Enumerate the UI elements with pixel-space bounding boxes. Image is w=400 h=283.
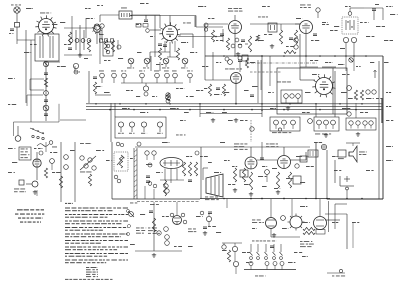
ground V3B <box>233 188 237 192</box>
capacitor C37 <box>19 180 24 185</box>
line cord plug <box>128 211 134 217</box>
wire bracket 195 <box>180 16 195 48</box>
tube cap connection <box>348 8 352 15</box>
capacitor C55 <box>203 227 207 229</box>
wave trap box 66 <box>119 11 132 19</box>
wire V3A down <box>235 84 237 104</box>
bypass capacitor C16 <box>121 71 126 84</box>
lug pot 2 <box>117 179 121 183</box>
resistor R8 <box>166 93 171 101</box>
SB3 pin 4 <box>369 121 373 129</box>
wire dash-dot y63 <box>245 62 318 64</box>
SB1 pin 1 <box>274 120 279 129</box>
wire top audio <box>135 146 310 148</box>
diode D1 <box>343 37 348 42</box>
bypass capacitor C15 <box>111 71 116 84</box>
volume control R23 dashed box <box>114 152 128 171</box>
wire y62 seg <box>44 61 60 63</box>
tube V3B 1st audio <box>245 157 257 169</box>
resistor R4 <box>158 48 161 60</box>
wire v 327 <box>326 150 328 199</box>
junction dots <box>234 55 262 56</box>
discriminator T4 dashed box <box>342 17 358 34</box>
phono pickup arm <box>37 141 57 148</box>
antenna ANT label <box>11 4 21 7</box>
wire x160 top <box>159 15 161 28</box>
wire heater bus <box>205 55 383 57</box>
resistor R5 <box>176 48 179 60</box>
wire x203 upper <box>199 103 201 117</box>
wire y122 riser <box>58 104 60 122</box>
interlock contact K1 <box>250 244 253 259</box>
capacitor C47 <box>240 170 248 177</box>
wire x271 top2 <box>270 199 272 212</box>
label switch <box>80 171 92 174</box>
node L label <box>9 32 13 35</box>
coil box T1 <box>35 34 59 61</box>
capacitor C38 <box>64 155 69 160</box>
shield box inner wall <box>332 68 334 114</box>
capacitor C36 <box>50 159 55 170</box>
wire x75 <box>74 142 76 202</box>
capacitor C45 <box>188 180 192 182</box>
socket box SB1 <box>270 117 300 131</box>
IF transformer T2 <box>103 42 113 56</box>
tube V4 output <box>278 156 291 169</box>
wire to trans <box>203 168 208 180</box>
wire x227 bottom <box>226 199 228 209</box>
SB1 pin 3 <box>291 120 296 129</box>
coupling C46 <box>260 158 264 160</box>
bypass capacitor C14 <box>99 71 104 84</box>
wire x89 vertical <box>88 71 90 103</box>
wire y120 left <box>60 119 86 121</box>
small parts <box>294 38 298 49</box>
capacitor C61 <box>231 44 235 48</box>
capacitor C58 <box>250 127 254 131</box>
wire V3A left <box>205 79 230 81</box>
notes margin circles <box>127 210 131 236</box>
resistor R11 <box>226 38 229 50</box>
capacitor C4 <box>44 73 48 75</box>
lug A2 <box>290 94 294 98</box>
wire x145 stem <box>144 186 146 199</box>
wire y272 <box>244 269 296 271</box>
labels under boxes <box>315 133 331 136</box>
wave trap coil <box>122 13 130 17</box>
junction dots on buses <box>95 55 367 199</box>
wire x111 <box>110 103 112 142</box>
wire V6 down <box>305 34 307 56</box>
wire tube cap V6 <box>350 7 364 9</box>
wire y40 left <box>16 40 18 44</box>
wire V3B top <box>250 147 252 157</box>
wire gang bracket 1 <box>30 79 44 90</box>
lug A3 <box>296 94 301 103</box>
junction a <box>250 198 284 199</box>
resistor R25 <box>182 162 185 176</box>
wire x177 up <box>176 202 178 215</box>
capacitor C24 <box>220 34 224 36</box>
pilot lamp P4 <box>181 58 188 68</box>
wire x258 pair <box>258 60 261 103</box>
wire osc bottom <box>64 54 92 56</box>
capacitor C27 <box>289 38 293 40</box>
wire x347b <box>346 214 348 249</box>
wire v speaker <box>315 142 317 199</box>
label V5A detector <box>228 8 243 12</box>
wire top right <box>364 8 383 20</box>
parts row y40 <box>69 39 114 43</box>
socket box SB2 <box>314 117 339 131</box>
capacitor C25 <box>241 40 245 42</box>
socket lug 3 <box>141 122 147 134</box>
wire motor top <box>325 214 347 220</box>
pot arrow <box>117 155 124 168</box>
resistor R21 <box>59 176 62 188</box>
interlock contact K2 <box>257 244 260 259</box>
tube V3B phono amp <box>33 159 41 167</box>
wire x354 low <box>353 56 355 71</box>
label 455kc <box>258 16 268 19</box>
trimmer C33 <box>366 90 376 94</box>
wire v 335b <box>334 160 336 183</box>
wire x61 <box>60 142 62 202</box>
wire x13 drop <box>13 122 15 136</box>
pilot light P5 <box>321 144 326 149</box>
capacitor C63 <box>148 163 152 167</box>
resistor R27 <box>194 162 197 176</box>
resistor R6 <box>104 40 107 52</box>
wire AVC bus horizontal <box>86 109 383 111</box>
coil detail T2 <box>106 44 110 54</box>
grid stopper <box>195 151 199 155</box>
band switch S1 <box>15 126 44 141</box>
diode D2 <box>351 37 356 42</box>
label output trans <box>205 197 219 201</box>
capacitor C50 <box>295 164 299 168</box>
capacitor C49 <box>293 176 301 184</box>
lug A1 <box>284 94 289 103</box>
resistor R38 <box>256 35 259 41</box>
wire speaker top <box>346 143 360 146</box>
wire V5 top <box>234 15 236 20</box>
wire V3B-V4 <box>257 159 277 161</box>
label V4 power amp <box>266 144 278 148</box>
resistor R34 <box>152 218 155 232</box>
wire x356 down <box>355 103 357 118</box>
capacitor C41 <box>145 151 149 160</box>
lug C <box>347 112 351 116</box>
wire V2B box <box>334 71 336 117</box>
trimmer C10 <box>73 63 78 74</box>
wire osc mix <box>261 56 263 71</box>
label bottom sw <box>255 275 266 278</box>
label speaker <box>359 152 367 156</box>
lug B <box>308 119 313 124</box>
wire V2 cathode down <box>163 41 178 57</box>
wire V2 plate right <box>178 36 223 38</box>
antenna loop A1 <box>14 7 20 22</box>
wire B+ bus horizontal <box>86 103 383 105</box>
wire V2 grid left <box>150 29 161 31</box>
capacitor C26 <box>268 23 277 32</box>
wire y24 V2-V5 <box>196 26 223 28</box>
bypass capacitor C18 <box>154 71 159 84</box>
rect socket circles <box>170 213 187 224</box>
ground rect2 <box>272 233 276 237</box>
ground V3A <box>211 118 215 122</box>
capacitor C8 <box>44 114 48 116</box>
notes paragraph block <box>65 208 128 264</box>
wire y95 mid <box>95 94 111 96</box>
ground phono <box>33 190 37 194</box>
SB2 pin 1 <box>317 120 322 129</box>
resistor R16 <box>354 90 357 100</box>
wire dashed y72 <box>250 71 281 73</box>
SB3 ground <box>356 132 360 136</box>
capacitor C59 <box>204 23 208 31</box>
resistor R29 <box>242 168 245 182</box>
wire trap down <box>144 15 148 22</box>
wire V5 left <box>205 23 228 25</box>
label line <box>252 240 277 243</box>
capacitor C9 <box>68 48 72 50</box>
pilot lamp P1 <box>127 58 134 68</box>
switch marks <box>332 269 345 276</box>
wire audio wall x201 <box>200 147 202 199</box>
label V6 FM det <box>300 5 311 9</box>
wire section wall x112 <box>111 142 113 199</box>
resistor R37 <box>227 250 230 262</box>
resistor R15 <box>294 30 297 44</box>
wire bottom right horizontal <box>327 198 383 200</box>
label PHONO <box>14 189 26 193</box>
capacitor C67 <box>316 230 325 235</box>
wire x205 vertical <box>204 24 206 80</box>
resistor R24 <box>163 180 166 196</box>
switch wafer lug 4 <box>280 262 284 270</box>
switch S5 <box>233 261 238 274</box>
wire right inner vertical <box>378 61 380 199</box>
ground det <box>270 44 274 48</box>
interlock contact K4 <box>273 244 276 259</box>
wire x115 <box>114 103 116 117</box>
SB1 stem <box>272 128 291 133</box>
trimmer capacitor C3 <box>43 61 48 66</box>
wire switch link <box>222 242 242 244</box>
switch S1 contacts <box>32 135 44 139</box>
ground V3A2 <box>234 118 238 122</box>
wire D2 down <box>353 43 355 56</box>
wire x37 down2 <box>36 190 38 196</box>
wire x86 v <box>85 18 87 38</box>
tone capacitor C51 <box>338 150 346 159</box>
wire x306 low <box>305 56 307 67</box>
wire x340 down <box>346 190 348 199</box>
wire left vertical 2 <box>30 40 32 122</box>
capacitor C32 <box>347 86 352 91</box>
wire rect out <box>271 229 300 238</box>
resistor R1 <box>44 78 47 87</box>
interlock contact K3 <box>265 244 268 259</box>
resistor R32 <box>288 172 291 188</box>
SB3 pin 2 <box>356 121 360 129</box>
resistor R18 <box>208 84 211 96</box>
capacitor C57 <box>270 246 274 248</box>
wire y180 bits <box>160 179 184 181</box>
bypass capacitor C21 <box>187 71 193 84</box>
socket box SB3 <box>346 118 376 130</box>
wire section floor <box>112 198 200 200</box>
volume pot R12 <box>245 36 252 52</box>
components y58-68 <box>225 58 249 69</box>
capacitor C56 <box>281 216 286 221</box>
wire osc section <box>64 27 97 29</box>
label sel rect <box>252 220 264 224</box>
switch wafer lug 2 <box>265 262 269 270</box>
wire gang to band switch <box>14 121 60 123</box>
wire antenna to coil <box>17 39 35 41</box>
switch S3 <box>222 243 226 249</box>
label rect <box>188 229 196 233</box>
coil T4 <box>346 20 354 30</box>
capacitor C44 <box>165 189 169 193</box>
notes bottom line <box>65 278 113 281</box>
capacitor C34 <box>216 88 220 90</box>
title SCHEMATIC OF THE <box>17 209 44 210</box>
wire x100 v2 <box>99 30 101 64</box>
electrolytic C30 <box>349 58 353 62</box>
wire trap right <box>132 14 160 16</box>
resistor R7 <box>111 40 114 52</box>
capacitor C62 <box>238 44 242 48</box>
wire psu <box>208 213 210 216</box>
label R thick <box>381 98 383 123</box>
socket lug 2 <box>129 122 135 134</box>
wire x346 low <box>345 56 347 71</box>
IF parts row <box>136 24 149 33</box>
resistor R22 <box>88 174 91 186</box>
wire x75 upper <box>74 66 76 71</box>
title line 3 <box>18 218 43 219</box>
wire y273r <box>327 272 345 274</box>
switch S4 <box>232 243 237 261</box>
wire x72 v <box>71 16 73 38</box>
SB2 pin 2 <box>324 120 329 129</box>
wire V4 top <box>283 147 285 156</box>
tube V7 rectifier <box>173 216 182 225</box>
SB1 pin 2 <box>282 120 287 129</box>
capacitor C29 <box>316 8 320 18</box>
ground V4 <box>249 190 280 196</box>
capacitor C12 <box>100 24 104 40</box>
wire V3B top <box>37 151 43 158</box>
ground TB1 <box>286 106 290 110</box>
capacitor C40 <box>137 142 141 146</box>
wire x223 v <box>222 29 224 42</box>
wire x262 <box>261 71 263 117</box>
parts row y58 <box>225 55 248 61</box>
socket lug 4 <box>157 122 163 134</box>
tube V3 dual triode <box>160 158 183 169</box>
shield box FM IF <box>277 68 347 114</box>
label top <box>74 71 80 74</box>
wire x154 stem2 <box>153 189 155 199</box>
wire D1 down <box>345 43 347 56</box>
resistor R14 <box>284 50 296 53</box>
wire parts-row bus <box>121 82 183 84</box>
ground osc <box>78 53 82 57</box>
capacitor C66 <box>116 142 123 146</box>
wire audio ground bus <box>200 198 330 200</box>
wire avc tap <box>145 83 147 86</box>
interlock contact K5 <box>280 244 283 259</box>
wire gang bracket 2 <box>27 95 43 106</box>
tube V6 ratio detector <box>300 21 313 34</box>
pilot lamp P3 <box>162 58 169 68</box>
switch wafer lug 3 <box>273 262 277 270</box>
capacitor C42 <box>152 151 156 160</box>
junction <box>235 103 262 111</box>
padder capacitor C5 <box>44 91 49 96</box>
wire V5 down <box>234 34 236 56</box>
wire y24 segment <box>250 23 300 25</box>
resistor R20 <box>44 168 47 178</box>
ground rect <box>152 253 156 257</box>
wire x213 vertical <box>212 52 214 80</box>
capacitor C60 <box>235 38 239 42</box>
resistor R26 <box>188 162 191 176</box>
resistor R2 <box>68 32 71 44</box>
tube V2 IF amplifier <box>159 22 180 43</box>
wire dashed drop <box>250 120 252 142</box>
ground C55 <box>203 231 207 235</box>
capacitor C64 <box>146 176 150 183</box>
arrow tune <box>374 70 377 78</box>
tube socket V1B <box>92 24 102 34</box>
wire x160 down <box>159 62 161 71</box>
title line 2 <box>15 214 44 215</box>
label shield <box>130 203 159 205</box>
label speaker socket <box>136 228 146 234</box>
resistor R31 <box>276 172 279 188</box>
resistor R30 <box>249 172 252 190</box>
field coil choke L3 <box>300 156 307 162</box>
trimmer C13 <box>117 45 121 49</box>
capacitor C11 <box>158 44 162 46</box>
wire V2B left <box>300 79 315 81</box>
capacitor C2 <box>10 29 14 31</box>
wire x320 top2 <box>319 199 321 216</box>
speaker SP1 <box>349 146 357 162</box>
IF transformer T3 box <box>115 117 166 138</box>
SB2 ground <box>324 133 328 137</box>
tube V1 socket detail <box>94 24 100 44</box>
dial lamp assembly <box>164 227 170 246</box>
electrolytic C22 <box>143 86 148 96</box>
wire left vertical <box>25 30 27 103</box>
tube V3A amp <box>231 73 242 84</box>
notes tube list <box>86 267 98 277</box>
wire V1 cathode chain <box>45 61 47 121</box>
switch wafer lug 1 <box>249 262 253 270</box>
wire y202 dashes <box>137 201 200 203</box>
bypass capacitor C17 <box>139 71 145 84</box>
tube V5 detector <box>229 21 242 34</box>
capacitor C43 <box>164 184 168 188</box>
resistor R3 <box>87 40 90 52</box>
